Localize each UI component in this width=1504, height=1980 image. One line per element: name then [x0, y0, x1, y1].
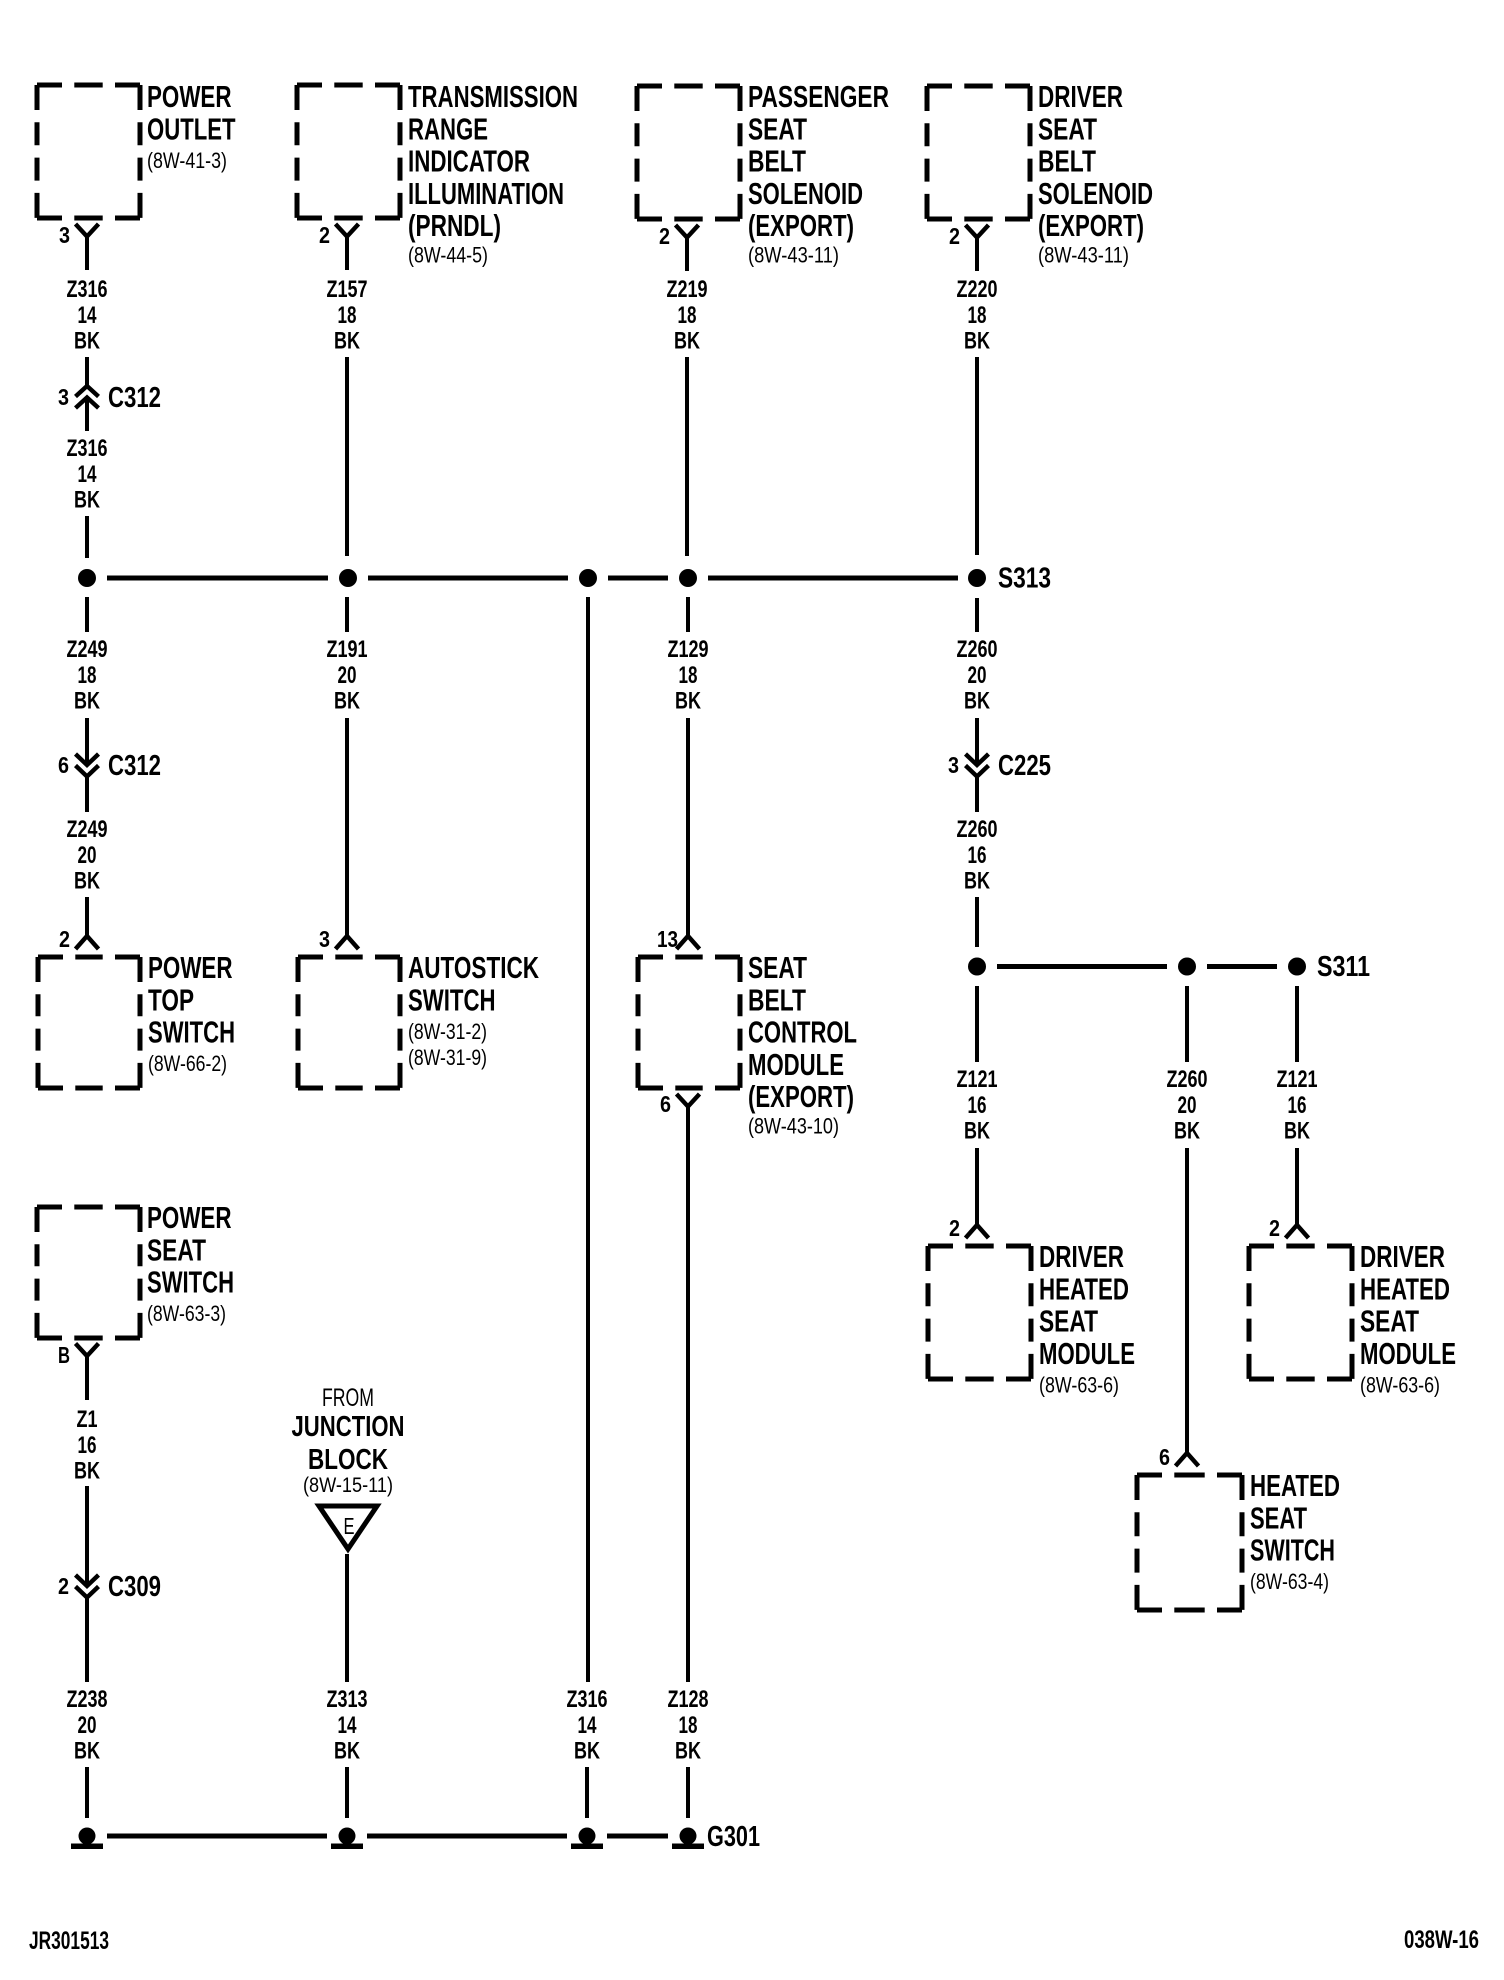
- svg-text:E: E: [344, 1513, 355, 1539]
- svg-text:SEAT: SEAT: [1039, 1305, 1098, 1339]
- junction S313 junction col2: [339, 569, 357, 587]
- svg-text:B: B: [58, 1342, 70, 1368]
- label text POWER SEAT SWITCH label: [147, 1201, 234, 1326]
- wire Z128 segment: [686, 1767, 690, 1818]
- svg-text:2: 2: [58, 1573, 69, 1599]
- connector pin 2 transmission range connector: [319, 222, 359, 270]
- svg-text:3: 3: [58, 384, 69, 410]
- svg-text:SWITCH: SWITCH: [148, 1016, 235, 1050]
- svg-text:SWITCH: SWITCH: [1250, 1534, 1335, 1568]
- svg-text:14: 14: [78, 302, 97, 329]
- wire G301 bus segment 1: [107, 1834, 327, 1839]
- wire label Z316 14 BK lower: [67, 435, 108, 514]
- svg-text:TOP: TOP: [148, 983, 194, 1017]
- svg-text:BK: BK: [964, 688, 990, 715]
- junction S311 junction col5: [1178, 958, 1196, 976]
- svg-text:(8W-31-2): (8W-31-2): [408, 1019, 487, 1044]
- wire S313 bus segment 3: [608, 576, 668, 581]
- ground junction G301 junction col2: [331, 1828, 363, 1850]
- component box POWER OUTLET: [37, 85, 140, 218]
- connector pin 3 power outlet connector: [59, 222, 99, 270]
- svg-text:DRIVER: DRIVER: [1360, 1240, 1445, 1274]
- wire G301 bus segment 3: [607, 1834, 668, 1839]
- svg-text:SEAT: SEAT: [1038, 112, 1097, 146]
- svg-text:Z316: Z316: [67, 435, 108, 462]
- svg-text:(8W-63-3): (8W-63-3): [147, 1301, 226, 1326]
- svg-text:BK: BK: [334, 1738, 360, 1765]
- svg-text:3: 3: [59, 222, 70, 248]
- wire label Z219 18 BK: [667, 276, 708, 355]
- connector C309 pin 2: [58, 1571, 161, 1603]
- svg-text:14: 14: [338, 1712, 357, 1739]
- svg-text:BELT: BELT: [748, 145, 806, 179]
- svg-text:18: 18: [679, 1712, 698, 1739]
- wire Z260 seat switch segment 2: [1185, 1148, 1189, 1453]
- svg-text:SEAT: SEAT: [147, 1233, 206, 1267]
- svg-text:(8W-43-11): (8W-43-11): [748, 243, 839, 268]
- component box TRANSMISSION RANGE INDICATOR ILLUMINATION: [297, 85, 400, 218]
- svg-text:Z238: Z238: [67, 1686, 108, 1713]
- wire label Z1 16 BK: [74, 1406, 100, 1485]
- svg-text:HEATED: HEATED: [1250, 1469, 1340, 1503]
- svg-text:14: 14: [578, 1712, 597, 1739]
- svg-text:SEAT: SEAT: [1250, 1501, 1307, 1535]
- svg-text:BK: BK: [675, 688, 701, 715]
- svg-text:Z316: Z316: [567, 1686, 608, 1713]
- connector pin 6 seat belt control module lower connector: [660, 1091, 700, 1682]
- svg-text:SWITCH: SWITCH: [147, 1266, 234, 1300]
- svg-text:BK: BK: [964, 328, 990, 355]
- wire Z121 segment 2 col6: [1295, 1148, 1299, 1225]
- wire label Z313 14 BK: [327, 1686, 368, 1765]
- wire Z238 segment: [85, 1598, 89, 1683]
- wire Z191 segment: [345, 597, 349, 632]
- wire Z220 segment: [975, 357, 979, 555]
- svg-text:BK: BK: [74, 868, 100, 895]
- wire Z260 segment: [975, 598, 979, 632]
- connector pin 13 seat belt control module connector: [657, 926, 700, 952]
- wire S313 bus segment 1: [107, 576, 328, 581]
- svg-text:SWITCH: SWITCH: [408, 983, 496, 1017]
- svg-text:18: 18: [679, 662, 698, 689]
- wire S313 bus segment 2: [368, 576, 568, 581]
- svg-text:RANGE: RANGE: [408, 112, 488, 146]
- svg-text:JUNCTION: JUNCTION: [292, 1411, 405, 1443]
- junction S311 junction col4: [968, 958, 986, 976]
- wire Z316 bottom segment: [585, 1767, 589, 1818]
- svg-text:18: 18: [78, 662, 97, 689]
- svg-text:18: 18: [968, 302, 987, 329]
- svg-text:HEATED: HEATED: [1039, 1272, 1129, 1306]
- label text HEATED SEAT SWITCH label: [1250, 1469, 1340, 1594]
- junction S311 splice dot: [1288, 958, 1306, 976]
- svg-text:MODULE: MODULE: [748, 1048, 844, 1082]
- label text PASSENGER SEAT BELT SOLENOID (EXPORT): [748, 80, 889, 268]
- wire Z129 segment 2: [686, 718, 690, 936]
- wire S313 bus segment 4: [708, 576, 958, 581]
- wire G301 bus segment 2: [367, 1834, 567, 1839]
- wire label Z316 14 BK bottom: [567, 1686, 608, 1765]
- svg-text:AUTOSTICK: AUTOSTICK: [408, 951, 539, 985]
- svg-text:2: 2: [59, 926, 70, 952]
- svg-text:BELT: BELT: [748, 983, 806, 1017]
- component box SEAT BELT CONTROL MODULE: [638, 957, 740, 1088]
- svg-text:SOLENOID: SOLENOID: [748, 177, 863, 211]
- wire label Z238 20 BK: [67, 1686, 108, 1765]
- wire label Z129 18 BK: [668, 636, 709, 715]
- svg-text:(8W-41-3): (8W-41-3): [147, 148, 227, 173]
- svg-text:OUTLET: OUTLET: [147, 112, 236, 146]
- svg-text:(EXPORT): (EXPORT): [748, 209, 854, 243]
- svg-text:G301: G301: [707, 1821, 760, 1853]
- svg-text:DRIVER: DRIVER: [1039, 1240, 1124, 1274]
- svg-text:INDICATOR: INDICATOR: [408, 145, 530, 179]
- svg-text:CONTROL: CONTROL: [748, 1016, 857, 1050]
- svg-text:SOLENOID: SOLENOID: [1038, 177, 1153, 211]
- svg-text:(8W-66-2): (8W-66-2): [148, 1051, 227, 1076]
- svg-text:3: 3: [319, 926, 330, 952]
- wire Z1 segment: [85, 1486, 89, 1586]
- component box AUTOSTICK SWITCH: [298, 957, 400, 1088]
- svg-text:Z316: Z316: [67, 276, 108, 303]
- connector C312 pin 6: [58, 750, 161, 782]
- svg-text:Z260: Z260: [957, 816, 998, 843]
- svg-text:(EXPORT): (EXPORT): [748, 1080, 854, 1114]
- svg-text:16: 16: [78, 1432, 97, 1459]
- wire label Z260 16 BK: [957, 816, 998, 895]
- svg-text:ILLUMINATION: ILLUMINATION: [408, 177, 564, 211]
- svg-text:Z260: Z260: [957, 636, 998, 663]
- wire Z313 segment: [345, 1554, 349, 1682]
- wire Z249 segment: [85, 597, 89, 632]
- svg-text:SEAT: SEAT: [748, 951, 807, 985]
- svg-text:Z220: Z220: [957, 276, 998, 303]
- wire label Z260 20 BK lower: [1167, 1066, 1208, 1145]
- svg-text:(8W-43-10): (8W-43-10): [748, 1114, 839, 1139]
- svg-text:2: 2: [949, 1215, 960, 1241]
- wire Z249 segment 3: [85, 777, 89, 813]
- svg-text:Z121: Z121: [1277, 1066, 1318, 1093]
- wire Z219 segment: [685, 357, 689, 556]
- junction block triangle E: [319, 1506, 377, 1549]
- wire Z260 segment 3: [975, 777, 979, 813]
- wire label Z191 20 BK: [327, 636, 368, 715]
- wire Z249 segment 4: [85, 897, 89, 936]
- svg-text:C312: C312: [108, 750, 161, 782]
- svg-text:BK: BK: [674, 328, 700, 355]
- label text POWER TOP SWITCH: [148, 951, 235, 1076]
- ground junction G301 ground dot: [672, 1828, 704, 1850]
- svg-text:Z313: Z313: [327, 1686, 368, 1713]
- wire Z316 long segment: [586, 597, 590, 1682]
- wire Z238 segment 2: [85, 1767, 89, 1818]
- svg-text:BK: BK: [964, 868, 990, 895]
- svg-text:SEAT: SEAT: [1360, 1305, 1419, 1339]
- svg-text:Z249: Z249: [67, 816, 108, 843]
- junction S313 junction col1: [78, 569, 96, 587]
- svg-text:(8W-63-6): (8W-63-6): [1360, 1373, 1440, 1398]
- svg-text:BK: BK: [74, 487, 100, 514]
- connector pin 2 driver solenoid connector: [949, 223, 989, 271]
- connector pin 2 power top switch connector: [59, 926, 99, 952]
- svg-text:14: 14: [78, 461, 97, 488]
- wire label Z121 16 BK: [957, 1066, 998, 1145]
- svg-text:BELT: BELT: [1038, 145, 1096, 179]
- svg-text:BK: BK: [74, 1738, 100, 1765]
- svg-text:BK: BK: [1284, 1118, 1310, 1145]
- wire label Z249 20 BK: [67, 816, 108, 895]
- svg-text:BK: BK: [574, 1738, 600, 1765]
- svg-text:6: 6: [660, 1091, 671, 1117]
- label text POWER OUTLET: [147, 80, 236, 173]
- ground junction G301 junction col1: [71, 1828, 103, 1850]
- wire Z316 segment 3: [85, 516, 89, 558]
- component box HEATED SEAT SWITCH: [1137, 1475, 1242, 1610]
- wire label Z157 18 BK: [327, 276, 368, 355]
- svg-text:POWER: POWER: [147, 1201, 232, 1235]
- svg-text:20: 20: [968, 662, 987, 689]
- svg-text:JR301513: JR301513: [29, 1927, 109, 1955]
- wire Z260 segment 4: [975, 897, 979, 947]
- svg-text:(8W-63-4): (8W-63-4): [1250, 1569, 1329, 1594]
- svg-text:(8W-63-6): (8W-63-6): [1039, 1373, 1119, 1398]
- svg-text:2: 2: [1269, 1215, 1280, 1241]
- svg-text:S313: S313: [998, 563, 1051, 595]
- svg-text:038W-16: 038W-16: [1404, 1926, 1479, 1954]
- svg-text:(8W-31-9): (8W-31-9): [408, 1045, 487, 1070]
- ground junction G301 junction mid: [571, 1828, 603, 1850]
- svg-text:S311: S311: [1317, 951, 1370, 983]
- wire Z157 segment: [345, 357, 349, 556]
- svg-text:Z121: Z121: [957, 1066, 998, 1093]
- svg-text:BK: BK: [334, 328, 360, 355]
- label text FROM JUNCTION BLOCK: [292, 1384, 405, 1497]
- wire label Z128 18 BK: [668, 1686, 709, 1765]
- svg-text:SEAT: SEAT: [748, 112, 807, 146]
- svg-text:FROM: FROM: [322, 1384, 374, 1412]
- wire Z249 segment 2: [85, 718, 89, 765]
- svg-text:C312: C312: [108, 382, 161, 414]
- svg-text:13: 13: [657, 926, 678, 952]
- wire Z313 segment 2: [345, 1767, 349, 1818]
- svg-text:C309: C309: [108, 1571, 161, 1603]
- connector C312 pin 3: [58, 382, 161, 414]
- connector pin 3 autostick switch connector: [319, 926, 359, 952]
- wire S311 bus segment 2: [1207, 964, 1277, 969]
- svg-text:Z249: Z249: [67, 636, 108, 663]
- svg-text:20: 20: [1178, 1092, 1197, 1119]
- svg-text:(8W-43-11): (8W-43-11): [1038, 243, 1129, 268]
- svg-text:18: 18: [678, 302, 697, 329]
- svg-text:BK: BK: [74, 328, 100, 355]
- wire Z121 segment col6: [1295, 986, 1299, 1062]
- svg-text:PASSENGER: PASSENGER: [748, 80, 889, 114]
- svg-text:Z129: Z129: [668, 636, 709, 663]
- label text DRIVER HEATED SEAT MODULE 2 label: [1360, 1240, 1456, 1398]
- connector pin 2 driver heated seat module 2 connector: [1269, 1215, 1309, 1241]
- label text SEAT BELT CONTROL MODULE (EXPORT): [748, 951, 857, 1139]
- svg-text:16: 16: [1288, 1092, 1307, 1119]
- svg-text:POWER: POWER: [147, 80, 232, 114]
- svg-text:BK: BK: [675, 1738, 701, 1765]
- svg-text:(8W-44-5): (8W-44-5): [408, 243, 488, 268]
- svg-text:20: 20: [78, 1712, 97, 1739]
- component box DRIVER HEATED SEAT MODULE 1: [928, 1246, 1031, 1379]
- svg-text:BK: BK: [74, 688, 100, 715]
- svg-text:Z260: Z260: [1167, 1066, 1208, 1093]
- svg-text:(PRNDL): (PRNDL): [408, 209, 501, 243]
- svg-text:(8W-15-11): (8W-15-11): [303, 1474, 393, 1497]
- svg-text:MODULE: MODULE: [1039, 1337, 1135, 1371]
- label text DRIVER SEAT BELT SOLENOID (EXPORT): [1038, 80, 1153, 268]
- svg-text:C225: C225: [998, 750, 1051, 782]
- connector C225 pin 3: [948, 750, 1051, 782]
- wire Z121 segment: [975, 986, 979, 1062]
- component box POWER TOP SWITCH: [38, 957, 140, 1088]
- wire label Z249 18 BK: [67, 636, 108, 715]
- connector pin 2 passenger solenoid connector: [659, 223, 699, 271]
- svg-text:POWER: POWER: [148, 951, 233, 985]
- svg-text:Z1: Z1: [77, 1406, 98, 1433]
- svg-text:BK: BK: [964, 1118, 990, 1145]
- wire Z316 segment: [85, 357, 89, 386]
- svg-text:BK: BK: [74, 1458, 100, 1485]
- junction S313 junction col3: [679, 569, 697, 587]
- component box PASSENGER SEAT BELT SOLENOID: [637, 86, 740, 219]
- svg-text:BLOCK: BLOCK: [308, 1444, 388, 1476]
- svg-text:16: 16: [968, 1092, 987, 1119]
- svg-text:6: 6: [58, 752, 69, 778]
- junction S313 junction mid: [579, 569, 597, 587]
- svg-text:6: 6: [1159, 1444, 1170, 1470]
- svg-text:BK: BK: [334, 688, 360, 715]
- svg-text:BK: BK: [1174, 1118, 1200, 1145]
- svg-text:DRIVER: DRIVER: [1038, 80, 1123, 114]
- svg-text:20: 20: [78, 842, 97, 869]
- svg-text:16: 16: [968, 842, 987, 869]
- wire Z260 segment 2: [975, 718, 979, 765]
- svg-text:3: 3: [948, 752, 959, 778]
- wire Z260 seat switch segment: [1185, 986, 1189, 1062]
- svg-text:Z191: Z191: [327, 636, 368, 663]
- svg-text:2: 2: [319, 222, 330, 248]
- svg-text:2: 2: [659, 223, 670, 249]
- wire label Z260 20 BK: [957, 636, 998, 715]
- junction S313 splice dot: [968, 569, 986, 587]
- svg-text:Z219: Z219: [667, 276, 708, 303]
- connector pin 2 driver heated seat module 1 connector: [949, 1215, 989, 1241]
- label text TRANSMISSION RANGE INDICATOR ILLUMINATION (PRNDL): [408, 80, 578, 268]
- connector pin B power seat switch connector: [58, 1342, 99, 1400]
- svg-text:Z128: Z128: [668, 1686, 709, 1713]
- wire S311 bus segment 1: [997, 964, 1167, 969]
- wire label Z121 16 BK col6: [1277, 1066, 1318, 1145]
- wire Z121 segment 2: [975, 1148, 979, 1225]
- svg-text:Z157: Z157: [327, 276, 368, 303]
- wire label Z316 14 BK: [67, 276, 108, 355]
- svg-text:HEATED: HEATED: [1360, 1272, 1450, 1306]
- svg-text:TRANSMISSION: TRANSMISSION: [408, 80, 578, 114]
- component box POWER SEAT SWITCH: [37, 1207, 140, 1338]
- component box DRIVER HEATED SEAT MODULE 2: [1249, 1246, 1352, 1379]
- svg-text:(EXPORT): (EXPORT): [1038, 209, 1144, 243]
- wire Z191 segment 2: [345, 718, 349, 936]
- wire Z129 segment: [686, 597, 690, 632]
- label text AUTOSTICK SWITCH: [408, 951, 539, 1070]
- connector pin 6 heated seat switch connector: [1159, 1444, 1199, 1470]
- svg-text:2: 2: [949, 223, 960, 249]
- component box DRIVER SEAT BELT SOLENOID: [927, 86, 1030, 219]
- svg-text:MODULE: MODULE: [1360, 1337, 1456, 1371]
- svg-text:18: 18: [338, 302, 357, 329]
- wire Z316 segment 2: [85, 398, 89, 432]
- wire label Z220 18 BK: [957, 276, 998, 355]
- label text DRIVER HEATED SEAT MODULE 1 label: [1039, 1240, 1135, 1398]
- svg-text:20: 20: [338, 662, 357, 689]
